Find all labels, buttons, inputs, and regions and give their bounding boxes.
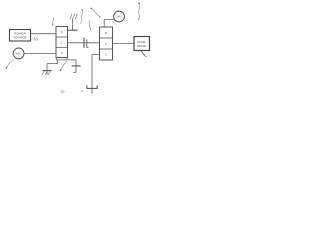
svg-text:SOURCE: SOURCE [13, 36, 26, 40]
svg-text:MG: MG [117, 15, 122, 19]
svg-text:50~: 50~ [61, 90, 67, 94]
svg-text:40: 40 [80, 89, 84, 93]
svg-text:S: S [61, 51, 63, 55]
svg-text:DRIVE: DRIVE [137, 44, 146, 48]
svg-text:S: S [105, 53, 107, 57]
svg-text:MG: MG [16, 52, 21, 56]
svg-text:~16: ~16 [31, 37, 38, 42]
